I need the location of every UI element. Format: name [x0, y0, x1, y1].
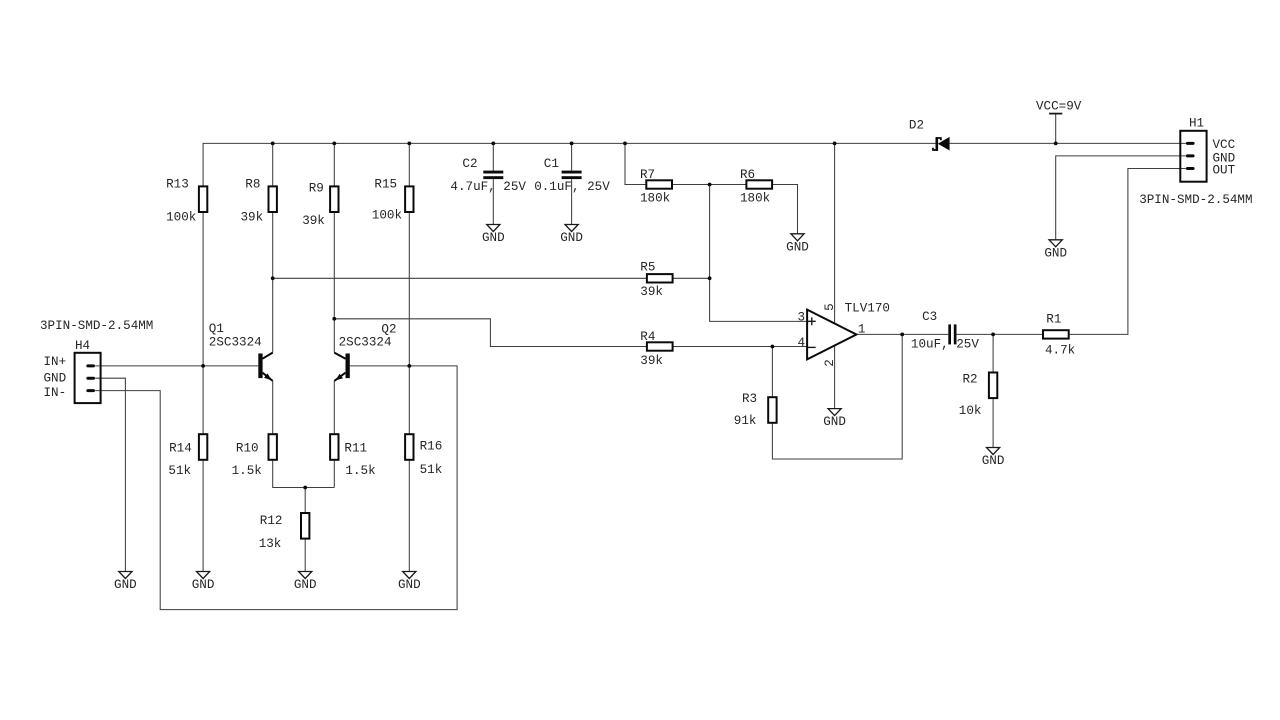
- svg-text:GND: GND: [786, 240, 809, 254]
- svg-text:GND: GND: [823, 415, 846, 429]
- resistor R8: [269, 186, 277, 212]
- svg-text:OUT: OUT: [1213, 164, 1236, 178]
- ground for H4 GND pin: [114, 572, 137, 593]
- junction emitter bus node: [303, 486, 307, 490]
- svg-text:180k: 180k: [640, 192, 670, 206]
- wire Q2 collector node to R4 left: [334, 319, 647, 347]
- junction rail-R8: [271, 142, 275, 146]
- transistor Q2: [334, 353, 350, 381]
- svg-text:180k: 180k: [740, 192, 770, 206]
- svg-text:13k: 13k: [259, 537, 282, 551]
- wire C2 top: [492, 143, 494, 170]
- junction Q2 base node: [407, 364, 411, 368]
- capacitor C1: [562, 171, 582, 179]
- svg-text:D2: D2: [909, 119, 924, 133]
- resistor R12: [301, 513, 309, 539]
- ground below op-amp pin 2: [823, 409, 846, 430]
- ground below R6: [786, 234, 809, 255]
- junction R5-R7 node: [708, 276, 712, 280]
- resistor R3: [768, 397, 776, 423]
- svg-text:1.5k: 1.5k: [345, 464, 375, 478]
- capacitor C2: [483, 171, 503, 179]
- svg-text:10uF, 25V: 10uF, 25V: [911, 338, 979, 352]
- svg-text:R2: R2: [963, 372, 978, 386]
- resistor R1: [1043, 330, 1069, 338]
- svg-text:1.5k: 1.5k: [232, 464, 262, 478]
- resistor R7: [646, 180, 672, 188]
- svg-text:51k: 51k: [168, 464, 191, 478]
- ground below R2: [982, 448, 1005, 469]
- resistor R2: [989, 373, 997, 399]
- wire H4 IN+ pin to Q1 base: [95, 365, 258, 367]
- wire emitter bus to R12 top: [304, 488, 306, 514]
- wire rail to R7 left: [625, 143, 646, 184]
- wire R9 top: [333, 143, 335, 186]
- connector H1: [1180, 131, 1206, 182]
- junction rail-C2: [491, 142, 495, 146]
- svg-text:1: 1: [858, 323, 866, 337]
- svg-text:39k: 39k: [640, 354, 663, 368]
- wire feedback from output to R3: [772, 334, 902, 459]
- svg-text:3: 3: [798, 310, 806, 324]
- wire C1 bottom to ground: [571, 179, 573, 224]
- svg-text:91k: 91k: [734, 414, 757, 428]
- wire Q1 emitter down to R10: [272, 381, 274, 434]
- svg-text:TLV170: TLV170: [845, 302, 890, 316]
- svg-text:GND: GND: [560, 231, 583, 245]
- wire R5/R7 node down to op-amp non-inverting input: [710, 185, 808, 322]
- wire VCC stub: [1055, 114, 1057, 144]
- svg-text:IN-: IN-: [44, 386, 67, 400]
- svg-text:100k: 100k: [372, 208, 402, 222]
- wire VCC rail right (D2 anode to H1 VCC pin): [950, 142, 1186, 144]
- svg-text:39k: 39k: [302, 214, 325, 228]
- transistor Q1: [258, 353, 272, 381]
- svg-text:GND: GND: [1044, 246, 1067, 260]
- svg-text:4: 4: [798, 336, 806, 350]
- svg-text:R12: R12: [260, 514, 283, 528]
- svg-text:C2: C2: [462, 157, 477, 171]
- svg-text:GND: GND: [44, 372, 67, 386]
- diode D2 (Schottky): [933, 137, 950, 151]
- junction Q1 base node: [201, 364, 205, 368]
- svg-text:R16: R16: [420, 440, 443, 454]
- ground for H1 GND pin: [1044, 240, 1067, 261]
- wire VCC rail left (R13 top to D2 cathode): [203, 143, 937, 186]
- svg-text:GND: GND: [114, 578, 137, 592]
- svg-text:R13: R13: [166, 178, 189, 192]
- svg-text:GND: GND: [398, 578, 421, 592]
- wire R16 bottom to ground: [408, 460, 410, 572]
- wire R2 bottom to ground: [992, 396, 994, 447]
- wire R10 bottom to emitter bus: [273, 460, 335, 488]
- svg-text:R10: R10: [236, 441, 259, 455]
- svg-text:R1: R1: [1046, 312, 1061, 326]
- wire rail to op-amp pin 5: [834, 143, 836, 323]
- wire R11 bottom to emitter bus: [333, 460, 335, 488]
- junction rail-opamp pin5: [833, 142, 837, 146]
- wire R15 top: [408, 143, 410, 186]
- svg-text:4.7uF, 25V: 4.7uF, 25V: [450, 180, 526, 194]
- junction Q2 collector node: [332, 317, 336, 321]
- resistor R13: [199, 186, 207, 212]
- svg-text:R8: R8: [245, 178, 260, 192]
- svg-text:5: 5: [823, 303, 837, 311]
- svg-text:39k: 39k: [241, 211, 264, 225]
- resistor R15: [405, 186, 413, 212]
- svg-text:2SC3324: 2SC3324: [339, 336, 392, 350]
- svg-text:4.7k: 4.7k: [1045, 343, 1075, 357]
- svg-text:R14: R14: [169, 441, 192, 455]
- svg-text:51k: 51k: [420, 463, 443, 477]
- wire C1 top: [571, 143, 573, 170]
- wire R5 right to node: [673, 277, 710, 279]
- ground below R14: [192, 572, 215, 593]
- resistor R11: [330, 434, 338, 460]
- svg-text:3PIN-SMD-2.54MM: 3PIN-SMD-2.54MM: [40, 319, 153, 333]
- svg-text:VCC=9V: VCC=9V: [1036, 100, 1082, 114]
- ground below R12: [294, 572, 317, 593]
- resistor R16: [405, 434, 413, 460]
- svg-text:R6: R6: [740, 168, 755, 182]
- op-amp U1 TLV170: [807, 310, 856, 360]
- wire R12 bottom to ground: [304, 539, 306, 572]
- ground below C2: [482, 225, 505, 246]
- svg-text:C3: C3: [922, 310, 937, 324]
- wire R8 top: [272, 143, 274, 186]
- svg-text:GND: GND: [482, 231, 505, 245]
- wire R7 right to R6 left: [672, 184, 746, 186]
- svg-text:C1: C1: [544, 157, 559, 171]
- wire R13 bottom to Q1 base node to R14 top: [202, 212, 204, 434]
- wire Q2 emitter down to R11: [333, 381, 335, 434]
- svg-text:R9: R9: [309, 182, 324, 196]
- junction rail-R7: [623, 142, 627, 146]
- svg-text:2SC3324: 2SC3324: [209, 336, 262, 350]
- wire H1 GND pin to ground: [1056, 156, 1186, 240]
- svg-text:IN+: IN+: [44, 355, 67, 369]
- svg-text:R4: R4: [640, 330, 655, 344]
- svg-text:H4: H4: [75, 339, 90, 353]
- svg-text:Q1: Q1: [209, 322, 224, 336]
- wire C3 right to R1 left: [957, 333, 1044, 335]
- wire Q1 collector node to R5 left: [273, 277, 647, 279]
- resistor R14: [199, 434, 207, 460]
- resistor R10: [269, 434, 277, 460]
- wire H4 GND pin to ground: [95, 378, 125, 571]
- svg-text:10k: 10k: [959, 404, 982, 418]
- svg-text:3PIN-SMD-2.54MM: 3PIN-SMD-2.54MM: [1139, 193, 1252, 207]
- junction output node: [900, 333, 904, 337]
- wire R6 right to ground: [772, 185, 797, 234]
- resistor R9: [330, 186, 338, 212]
- junction rail-R15: [407, 142, 411, 146]
- svg-text:R3: R3: [742, 392, 757, 406]
- resistor R6: [746, 180, 772, 188]
- wire R8 bottom to Q1 collector: [272, 212, 274, 353]
- svg-text:R7: R7: [640, 168, 655, 182]
- junction rail-C1: [570, 142, 574, 146]
- junction rail-VCC stub: [1054, 142, 1058, 146]
- power VCC=9V symbol: [1049, 113, 1062, 115]
- svg-text:GND: GND: [192, 578, 215, 592]
- wire op-amp pin 2 to ground: [834, 346, 836, 409]
- wire C2 bottom to ground: [492, 179, 494, 224]
- svg-text:39k: 39k: [640, 285, 663, 299]
- wire R1 right up to H1 OUT pin: [1069, 169, 1186, 335]
- connector H4: [75, 353, 101, 403]
- svg-text:H1: H1: [1189, 116, 1204, 130]
- svg-text:2: 2: [823, 359, 837, 367]
- junction output-R2 node: [991, 333, 995, 337]
- svg-text:R15: R15: [374, 178, 397, 192]
- wire R9 bottom to Q2 collector: [333, 212, 335, 353]
- capacitor C3: [948, 324, 956, 344]
- svg-text:R11: R11: [344, 441, 367, 455]
- junction inverting input node: [771, 345, 775, 349]
- wire R4 right to op-amp inverting input: [673, 346, 808, 348]
- svg-text:100k: 100k: [166, 211, 196, 225]
- wire R3 top to inverting input node: [771, 347, 773, 398]
- svg-text:Q2: Q2: [381, 323, 396, 337]
- ground below R16: [398, 572, 421, 593]
- svg-text:GND: GND: [294, 578, 317, 592]
- wire H4 IN- pin to Q2 base via bottom bus: [95, 366, 457, 610]
- junction rail-R9: [332, 142, 336, 146]
- wire R14 bottom to ground: [202, 460, 204, 572]
- wire op-amp output to C3: [856, 333, 948, 335]
- junction R7-R6 node: [708, 183, 712, 187]
- resistor R5: [647, 274, 673, 282]
- svg-text:GND: GND: [982, 454, 1005, 468]
- svg-text:VCC: VCC: [1213, 138, 1236, 152]
- junction Q1 collector node: [271, 276, 275, 280]
- wire R15 bottom to Q2 base node to R16 top: [408, 212, 410, 434]
- svg-text:R5: R5: [640, 261, 655, 275]
- wire output node down to R2 top: [992, 334, 994, 372]
- ground below C1: [560, 225, 583, 246]
- resistor R4: [647, 342, 673, 350]
- svg-text:0.1uF, 25V: 0.1uF, 25V: [534, 180, 610, 194]
